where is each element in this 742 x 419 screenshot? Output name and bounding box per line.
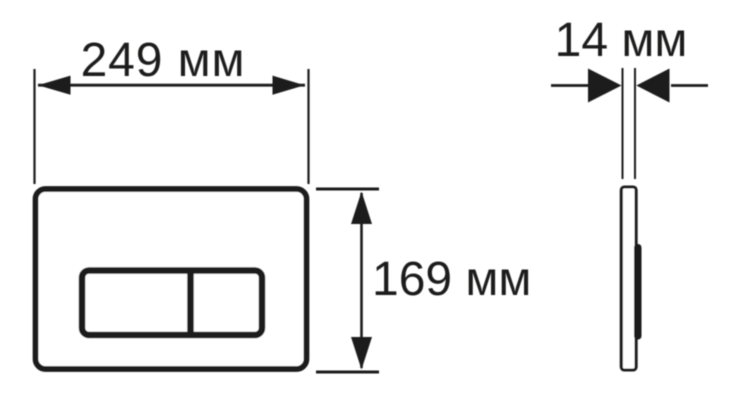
svg-text:14 мм: 14 мм <box>555 14 688 67</box>
svg-text:249 мм: 249 мм <box>81 34 246 87</box>
svg-text:169 мм: 169 мм <box>372 253 531 306</box>
